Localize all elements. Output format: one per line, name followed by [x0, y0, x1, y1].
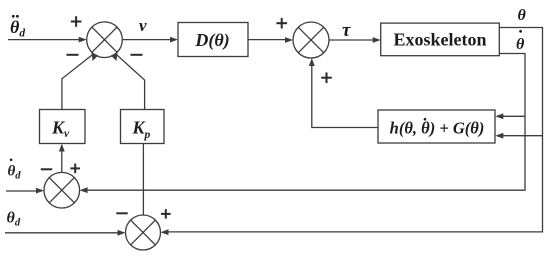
svg-text:Exoskeleton: Exoskeleton [393, 30, 486, 50]
svg-text:D(θ): D(θ) [194, 30, 229, 51]
svg-text:Kp: Kp [132, 118, 151, 142]
svg-text:v: v [139, 16, 147, 35]
svg-text:θd: θd [10, 17, 25, 40]
svg-text:θ: θ [518, 7, 527, 24]
svg-text:θd: θd [8, 164, 22, 182]
svg-text:h(θ, θ) + G(θ): h(θ, θ) + G(θ) [390, 119, 485, 138]
svg-text:Kv: Kv [51, 118, 70, 141]
svg-text:θd: θd [7, 210, 21, 229]
svg-text:τ: τ [342, 20, 351, 41]
svg-text:θ: θ [516, 36, 525, 53]
